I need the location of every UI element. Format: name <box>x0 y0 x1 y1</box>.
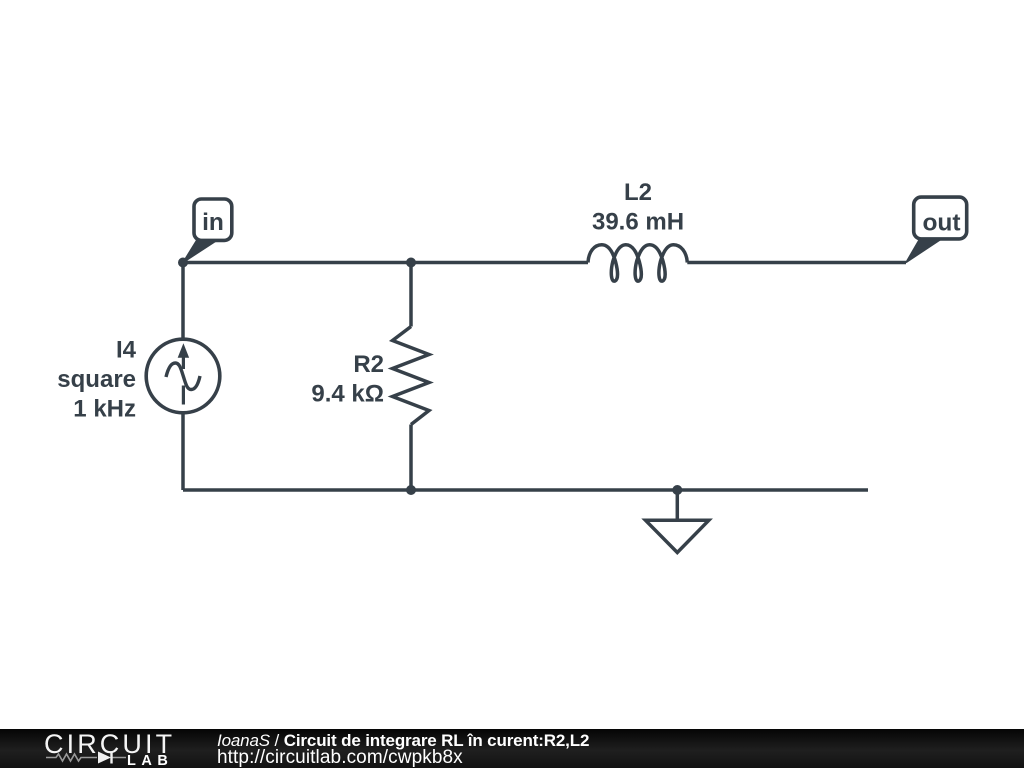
svg-text:I4: I4 <box>116 337 137 364</box>
current source I4 circle <box>146 339 220 413</box>
svg-text:9.4 kΩ: 9.4 kΩ <box>311 381 384 408</box>
wire top-middle: resistor node to inductor L2 left lead <box>411 261 588 265</box>
footer black bar <box>0 729 1024 768</box>
footer url line <box>217 748 463 767</box>
node flag "out" tail <box>906 239 941 262</box>
svg-text:out: out <box>922 210 960 237</box>
svg-text:LAB: LAB <box>127 753 173 768</box>
node flag "in" box <box>194 199 232 240</box>
wire top-right: inductor L2 right lead to out flag <box>687 261 906 265</box>
wire R2 bottom lead <box>409 425 413 491</box>
resistor R2 zigzag body <box>393 327 430 425</box>
wire left vertical lower: current source I4 bottom to bottom net <box>181 413 185 491</box>
ground triangle <box>646 520 709 552</box>
junction node at in <box>178 258 188 268</box>
svg-text:square: square <box>57 366 136 393</box>
footer title line <box>217 732 589 749</box>
svg-text:1 kHz: 1 kHz <box>73 396 136 423</box>
svg-text:in: in <box>202 209 224 236</box>
wire bottom net: from I4 across R2 and ground to right end <box>183 488 868 492</box>
wire top-left: node in to resistor node <box>183 261 411 265</box>
logo diode triangle <box>98 752 111 764</box>
svg-text:R2: R2 <box>353 351 384 378</box>
current source I4 sine wave <box>166 363 200 390</box>
svg-text:L2: L2 <box>624 179 652 206</box>
wire left vertical: node in down to current source I4 top <box>181 263 185 340</box>
node flag "in" tail <box>183 241 217 263</box>
ground stem <box>676 490 680 520</box>
logo diode bar <box>110 752 112 764</box>
inductor L2 coil body <box>588 245 687 281</box>
wire R2 top lead <box>409 263 413 327</box>
junction node at ground <box>672 485 682 495</box>
current source I4 arrow shaft upper <box>182 355 185 369</box>
svg-text:39.6 mH: 39.6 mH <box>592 209 684 236</box>
CircuitLab logo <box>0 729 190 768</box>
junction node at R2 bottom <box>406 485 416 495</box>
node flag "out" box <box>914 197 967 239</box>
logo resistor-diode wire <box>46 754 126 761</box>
current source I4 arrow head <box>178 345 188 358</box>
current source I4 arrow shaft lower <box>182 386 185 405</box>
junction node at R2 top <box>406 258 416 268</box>
